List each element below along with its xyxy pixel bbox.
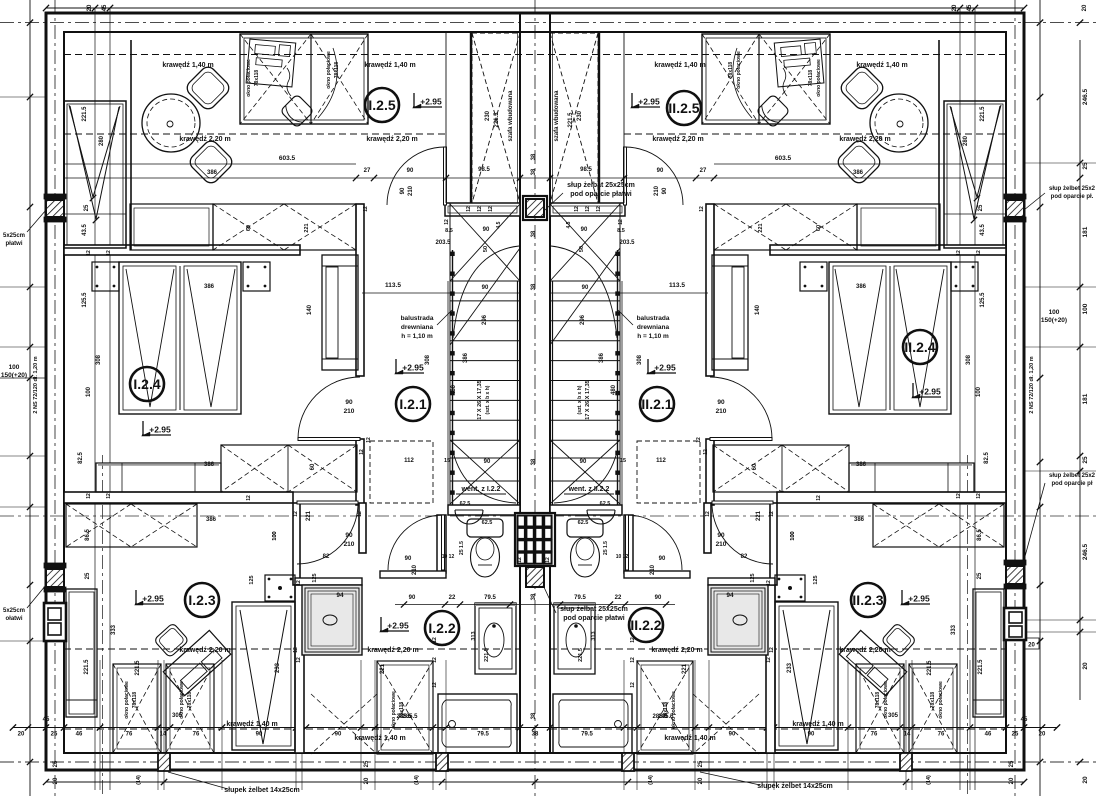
svg-text:125.5: 125.5 — [82, 292, 88, 308]
svg-text:125: 125 — [249, 575, 255, 584]
svg-text:12: 12 — [956, 493, 962, 499]
chair I.2.3 — [154, 623, 189, 658]
room label II.2.2 — [629, 608, 663, 642]
svg-text:okno połaciowe: okno połaciowe — [246, 59, 252, 97]
left margin vertical chain — [29, 0, 31, 796]
wardrobe szafa wbudowana I dashed X — [472, 33, 520, 203]
svg-text:I.2.4: I.2.4 — [133, 376, 160, 392]
bathroom I.2.2 left wall — [295, 585, 304, 753]
wardrobe front edge line II — [623, 33, 625, 203]
svg-text:210: 210 — [716, 541, 727, 548]
svg-text:79.5: 79.5 — [581, 732, 593, 738]
svg-text:20: 20 — [18, 732, 25, 738]
room I.2.5 desk block outline — [240, 34, 368, 124]
room label I.2.2 — [425, 611, 459, 645]
svg-text:okno połaciowe: okno połaciowe — [938, 681, 944, 719]
svg-text:76: 76 — [126, 732, 133, 738]
bottom witness lines — [99, 660, 101, 790]
svg-text:221.5: 221.5 — [568, 112, 574, 128]
svg-text:12: 12 — [477, 206, 483, 212]
toilet II.2.2 bowl — [571, 537, 600, 577]
svg-text:12: 12 — [956, 250, 962, 256]
pier słup żelbet 25x25 right wall upper — [1006, 200, 1024, 217]
svg-text:125: 125 — [813, 575, 819, 584]
slupek 14x25 post at x=622.0 — [622, 753, 634, 771]
svg-text:79.5: 79.5 — [574, 595, 586, 601]
svg-text:25: 25 — [1009, 760, 1015, 767]
svg-text:313: 313 — [471, 631, 477, 640]
door I.2.5 to hall leaf — [444, 147, 447, 205]
sofa I.2.4 — [322, 255, 358, 370]
svg-text:słup żelbat 25x25cm: słup żelbat 25x25cm — [567, 182, 635, 189]
svg-text:25: 25 — [84, 204, 90, 211]
wall hall I.2.1 vertical x356 — [356, 204, 364, 376]
leader margin left lower — [27, 585, 46, 608]
svg-text:90: 90 — [482, 285, 489, 291]
svg-text:pod oparcie pł.: pod oparcie pł. — [1051, 194, 1094, 200]
washbasin cabinet I.2.2 — [475, 603, 516, 674]
desk block dashed X right cell II — [702, 34, 759, 124]
svg-text:12: 12 — [696, 437, 702, 443]
nightstand right I.2.4 — [243, 262, 270, 291]
svg-text:20: 20 — [1082, 776, 1089, 784]
svg-text:45: 45 — [102, 4, 108, 11]
svg-text:12: 12 — [766, 657, 772, 663]
svg-text:II.2.1: II.2.1 — [641, 396, 672, 412]
wardrobe szafa wbudowana II dashed X — [550, 33, 598, 203]
toilet nook sink I — [455, 510, 483, 524]
stair railing balusters II — [616, 252, 620, 256]
stair shaft II.2.1 outline — [550, 203, 620, 505]
svg-text:308: 308 — [96, 354, 102, 365]
bottom second chain — [46, 781, 1024, 783]
svg-text:82.5: 82.5 — [78, 452, 84, 464]
krawedz 2,20 dashed line top — [64, 133, 446, 135]
svg-text:79.5: 79.5 — [484, 595, 496, 601]
svg-text:78x118: 78x118 — [808, 70, 814, 87]
bed duvet V right II.2.4 — [835, 269, 883, 407]
wardrobe I szafa wbudowana side wall — [470, 33, 472, 203]
room II.2.5 desk block outline — [702, 34, 830, 124]
leader slup bottom — [543, 585, 556, 613]
pier słup żelbet 25x25 left wall lower — [46, 569, 64, 587]
svg-text:balustrada: balustrada — [637, 315, 670, 322]
shelf unit left wall I.2.3 — [66, 589, 97, 717]
party wall face inner thin — [517, 33, 519, 205]
tall wardrobe triangle II.2.3 — [783, 610, 830, 744]
axis dash-dot bathroom zone — [0, 515, 1100, 517]
svg-text:386: 386 — [854, 517, 865, 523]
room label I.2.4 — [130, 367, 164, 401]
svg-text:210: 210 — [654, 185, 660, 196]
svg-text:386: 386 — [856, 284, 867, 290]
svg-text:82.5: 82.5 — [984, 452, 990, 464]
svg-text:86.5: 86.5 — [85, 529, 91, 541]
door II.2.5 to hall leaf — [624, 147, 627, 205]
toilet I.2.2 tank — [467, 519, 503, 537]
svg-text:210: 210 — [716, 408, 727, 415]
chimney block flue grid — [515, 513, 555, 566]
svg-text:10 12: 10 12 — [442, 554, 455, 560]
svg-text:221.5: 221.5 — [484, 648, 490, 662]
svg-text:62.5: 62.5 — [600, 501, 611, 507]
svg-text:86.5: 86.5 — [977, 529, 983, 541]
svg-text:100: 100 — [86, 386, 92, 397]
svg-text:221.5: 221.5 — [84, 659, 90, 675]
bathroom II.2.2 left wall — [766, 585, 775, 753]
svg-text:25: 25 — [978, 204, 984, 211]
wall I.2.5/I.2.4 horizontal y250 — [64, 245, 300, 255]
svg-text:12: 12 — [296, 657, 302, 663]
door toilet nook I leaf — [442, 515, 445, 570]
stair bottom diagonals II — [550, 440, 620, 504]
bathtub overflow I.2.2 — [449, 721, 456, 728]
svg-text:79.5: 79.5 — [477, 732, 489, 738]
svg-text:krawędź 2,20 m: krawędź 2,20 m — [179, 136, 230, 143]
desk block divider II — [758, 34, 760, 124]
toilet nook I left wall — [437, 515, 446, 573]
knee wall line II.2.5 — [938, 40, 940, 250]
svg-text:45: 45 — [967, 4, 973, 11]
vent shaft dashed rect I — [370, 441, 433, 503]
svg-text:okno połaciowe: okno połaciowe — [671, 691, 677, 729]
stair treads I — [450, 280, 520, 282]
svg-text:słup żelbet 25x2: słup żelbet 25x2 — [1049, 473, 1096, 479]
svg-text:603.5: 603.5 — [775, 155, 792, 162]
left margin witness segments — [0, 96, 46, 98]
armchair lower I.2.5 — [187, 138, 235, 186]
wall hall II.2.1 vertical x356 — [706, 204, 714, 376]
svg-text:I.2.2: I.2.2 — [428, 620, 455, 636]
nightstand left II.2.4 — [951, 262, 978, 291]
room label II.2.4 — [903, 330, 937, 364]
low cabinet bottom II.2.4 — [849, 463, 974, 492]
svg-text:203.5: 203.5 — [619, 240, 635, 246]
svg-text:76: 76 — [871, 732, 878, 738]
svg-text:20: 20 — [364, 777, 370, 784]
level mark +2.95 II.2.1 — [647, 359, 649, 373]
svg-text:12: 12 — [366, 437, 372, 443]
svg-text:szafa wbudowana: szafa wbudowana — [508, 90, 514, 142]
axis dash-dot right wall — [1014, 0, 1016, 796]
svg-text:386: 386 — [207, 170, 218, 176]
krawedz 1,40 dashed line bottom — [64, 728, 520, 730]
svg-text:krawędź 2,20 m: krawędź 2,20 m — [367, 647, 418, 654]
dim chain y178 II — [535, 177, 1006, 179]
svg-text:221.5: 221.5 — [82, 106, 88, 122]
room label II.2.5 — [667, 91, 701, 125]
pier słup żelbet 25x25 right wall lower — [1006, 566, 1024, 584]
svg-text:22: 22 — [449, 595, 456, 601]
svg-text:38: 38 — [532, 732, 539, 738]
svg-text:20: 20 — [698, 777, 704, 784]
svg-text:25: 25 — [364, 760, 370, 767]
bathtub overflow II.2.2 — [615, 721, 622, 728]
svg-text:90: 90 — [405, 556, 412, 562]
slupek 14x25 post at x=158 — [158, 753, 170, 771]
svg-text:szafa wbudowana: szafa wbudowana — [554, 90, 560, 142]
low cabinet bottom I.2.4 — [96, 463, 221, 492]
svg-text:386: 386 — [599, 352, 605, 363]
svg-text:12: 12 — [517, 557, 523, 563]
svg-text:krawędź 1,40 m: krawędź 1,40 m — [792, 721, 843, 728]
axis dash-dot center party wall — [534, 0, 536, 796]
svg-text:II.2.3: II.2.3 — [852, 592, 883, 608]
svg-text:112: 112 — [656, 458, 666, 464]
svg-text:90: 90 — [409, 595, 416, 601]
svg-text:słupek żelbet 14x25cm: słupek żelbet 14x25cm — [757, 783, 833, 790]
svg-text:386: 386 — [204, 462, 215, 468]
stair winder treads I — [450, 457, 520, 459]
stair winder treads II — [550, 457, 620, 459]
svg-text:305: 305 — [172, 713, 183, 719]
svg-text:12: 12 — [630, 657, 636, 663]
svg-text:210: 210 — [408, 185, 414, 196]
stair top diagonals II — [550, 204, 620, 281]
svg-text:90: 90 — [657, 168, 664, 174]
svg-text:480: 480 — [451, 384, 457, 395]
party wall left face — [519, 13, 521, 753]
svg-text:78x118: 78x118 — [132, 692, 138, 709]
leader margin right lower — [1024, 483, 1045, 560]
svg-text:125.5: 125.5 — [980, 292, 986, 308]
stair top arc II — [551, 246, 617, 338]
svg-text:krawędź 1,40 m: krawędź 1,40 m — [664, 735, 715, 742]
svg-text:90: 90 — [717, 399, 725, 406]
bed duvet V left I.2.4 — [126, 269, 174, 407]
door toilet nook II leaf — [626, 515, 629, 570]
level mark +2.95 II.2.3 — [901, 590, 903, 604]
svg-text:46: 46 — [76, 732, 83, 738]
door II.2.3 swing arc — [712, 503, 773, 564]
svg-text:386: 386 — [206, 517, 217, 523]
toilet II.2.2 tank — [567, 519, 603, 537]
stair railing II wall side — [552, 281, 554, 505]
axis dash-dot bottom wall — [0, 761, 1100, 763]
svg-text:38: 38 — [531, 168, 537, 175]
svg-text:90: 90 — [662, 187, 668, 194]
svg-text:12: 12 — [432, 657, 438, 663]
svg-text:386: 386 — [463, 352, 469, 363]
tall wardrobe triangle I.2.3 — [240, 610, 287, 744]
round table I.2.5 — [142, 94, 200, 152]
leader slup top — [545, 193, 563, 210]
svg-text:90: 90 — [484, 459, 491, 465]
cabinet gray top II.2.4 — [851, 463, 972, 466]
room label II.2.3 — [851, 583, 885, 617]
svg-text:8.5: 8.5 — [617, 228, 625, 234]
svg-text:78x118: 78x118 — [930, 692, 936, 709]
svg-text:98.5: 98.5 — [580, 167, 592, 173]
svg-text:43.5: 43.5 — [82, 224, 88, 236]
door I.2.5 to hall swing arc — [387, 147, 445, 205]
svg-text:90: 90 — [345, 399, 353, 406]
svg-text:90: 90 — [483, 227, 490, 233]
svg-text:12: 12 — [296, 580, 302, 586]
cable squiggle I.2.5 — [287, 68, 291, 96]
svg-text:4.5: 4.5 — [496, 221, 502, 228]
wall I.2.3 top y492 — [64, 492, 293, 503]
door I.2.4 leaf — [298, 438, 360, 441]
stair railing I wall side — [517, 281, 519, 505]
svg-text:230: 230 — [577, 110, 583, 121]
wall above shower I — [295, 578, 362, 585]
sofa II.2.4 — [712, 255, 748, 370]
bed duvet V right I.2.4 — [187, 269, 235, 407]
toilet nook I bottom stub — [380, 571, 446, 578]
svg-text:603.5: 603.5 — [279, 155, 296, 162]
svg-text:38: 38 — [531, 458, 537, 465]
svg-text:+2.95: +2.95 — [420, 97, 442, 107]
svg-text:15: 15 — [444, 458, 450, 464]
svg-text:296: 296 — [580, 314, 586, 325]
svg-text:20: 20 — [952, 4, 958, 11]
svg-text:25: 25 — [698, 760, 704, 767]
svg-text:140: 140 — [755, 304, 761, 315]
shower drain I.2.2 — [323, 615, 337, 625]
level mark +2.95 I.2.4 — [142, 421, 144, 435]
svg-text:50: 50 — [579, 246, 585, 252]
svg-text:43.5: 43.5 — [980, 224, 986, 236]
svg-text:210: 210 — [412, 564, 418, 575]
pier caps left upper — [44, 194, 66, 199]
svg-text:60: 60 — [310, 463, 316, 470]
axis dash-dot left wall — [54, 0, 56, 796]
svg-text:krawędź 1,40 m: krawędź 1,40 m — [354, 735, 405, 742]
svg-text:90: 90 — [582, 285, 589, 291]
stair railing II outer — [621, 281, 623, 505]
svg-text:słupek żelbet 14x25cm: słupek żelbet 14x25cm — [224, 787, 300, 794]
svg-text:82: 82 — [323, 554, 330, 560]
side table II.2.3 — [775, 575, 805, 601]
slupek 14x25 post at x=900.0 — [900, 753, 912, 771]
toilet nook II top wall — [550, 505, 622, 515]
svg-text:50: 50 — [483, 246, 489, 252]
stair railing balusters I — [451, 252, 455, 256]
shower drain II.2.2 — [733, 615, 747, 625]
svg-text:62.5: 62.5 — [482, 520, 493, 526]
stair bottom arc II — [554, 452, 617, 503]
svg-text:246.5: 246.5 — [1082, 88, 1089, 105]
svg-text:12: 12 — [630, 637, 636, 643]
slupek 14x25 post at x=436 — [436, 753, 448, 771]
svg-text:went. z I.2.2: went. z I.2.2 — [461, 486, 501, 493]
svg-text:480: 480 — [611, 384, 617, 395]
svg-text:113.5: 113.5 — [385, 282, 401, 289]
svg-text:38: 38 — [531, 593, 537, 600]
svg-text:90: 90 — [400, 187, 406, 194]
svg-text:25: 25 — [1082, 162, 1089, 170]
svg-text:12: 12 — [699, 206, 705, 212]
svg-text:62.5: 62.5 — [460, 501, 471, 507]
svg-text:280: 280 — [99, 135, 105, 146]
svg-text:okno połaciowe: okno połaciowe — [736, 51, 742, 89]
svg-text:90: 90 — [717, 532, 725, 539]
svg-text:221: 221 — [756, 510, 762, 521]
svg-text:4.5: 4.5 — [566, 221, 572, 228]
svg-text:12: 12 — [545, 557, 551, 563]
krawedz 1,40 dashed line top — [64, 54, 1006, 56]
svg-text:płatwi: płatwi — [5, 241, 22, 247]
svg-text:12: 12 — [630, 682, 636, 688]
svg-text:94: 94 — [336, 592, 344, 599]
svg-text:76: 76 — [193, 732, 200, 738]
svg-text:II.2.4: II.2.4 — [904, 339, 935, 355]
svg-text:(szt. x b x h): (szt. x b x h) — [577, 385, 583, 414]
svg-text:221: 221 — [304, 223, 310, 232]
svg-text:h = 1,10 m: h = 1,10 m — [401, 333, 433, 340]
svg-text:12: 12 — [86, 493, 92, 499]
wall top of hall / wardrobe shelf — [550, 203, 625, 216]
desk rotated I.2.3 — [163, 630, 230, 695]
door toilet nook I swing arc — [388, 515, 443, 570]
toilet I.2.2 bowl — [471, 537, 500, 577]
svg-text:82: 82 — [741, 554, 748, 560]
right margin vertical chains — [1039, 0, 1041, 796]
bed duvet V left II.2.4 — [896, 269, 944, 407]
svg-text:krawędź 2,20 m: krawędź 2,20 m — [652, 136, 703, 143]
svg-text:90: 90 — [335, 732, 342, 738]
svg-text:285.5: 285.5 — [652, 714, 668, 720]
svg-text:25 1.5: 25 1.5 — [603, 541, 609, 555]
svg-text:296: 296 — [482, 314, 488, 325]
svg-text:305: 305 — [888, 713, 899, 719]
roof window bathroom II.2.2 dashed X — [693, 694, 759, 754]
svg-text:2 NS 72/120 dł. 1,20 m: 2 NS 72/120 dł. 1,20 m — [1029, 356, 1035, 413]
svg-text:drewniana: drewniana — [401, 324, 434, 331]
interior vertical witness lines left — [94, 8, 96, 790]
wardrobe divider lines II.2.5 — [944, 213, 1006, 215]
svg-text:balustrada: balustrada — [401, 315, 434, 322]
window element 2 NS right wall — [1004, 608, 1026, 640]
top dimension chain line — [46, 7, 1024, 9]
svg-text:210: 210 — [344, 541, 355, 548]
room label I.2.5 — [365, 88, 399, 122]
svg-text:12: 12 — [363, 206, 369, 212]
shower I.2.2 — [302, 585, 362, 655]
svg-text:słup żelbet 25x2: słup żelbet 25x2 — [1049, 186, 1096, 192]
svg-text:pod oparcie pł: pod oparcie pł — [1051, 481, 1092, 487]
svg-text:25: 25 — [53, 760, 59, 767]
leader balustrada II — [618, 310, 633, 325]
desk rotated II.2.3 — [839, 630, 906, 695]
svg-text:20: 20 — [87, 4, 93, 11]
svg-text:20: 20 — [1082, 4, 1088, 11]
dim 603.5 I.2.5 — [65, 163, 356, 165]
svg-text:333: 333 — [111, 624, 117, 635]
svg-text:12: 12 — [618, 219, 624, 225]
svg-text:12: 12 — [86, 250, 92, 256]
svg-text:221.5: 221.5 — [980, 106, 986, 122]
svg-text:221: 221 — [306, 510, 312, 521]
stair top arc I — [453, 246, 519, 338]
roof window II.2.3 left — [909, 664, 957, 753]
svg-text:60: 60 — [752, 463, 758, 470]
washbasin cabinet II.2.2 — [554, 603, 595, 674]
wardrobe left wall II.2.5 — [944, 101, 1006, 248]
svg-text:140: 140 — [307, 304, 313, 315]
tall wardrobe II.2.3 — [775, 602, 838, 750]
level mark +2.95 II.2.4 — [912, 383, 914, 397]
room label II.2.1 — [640, 387, 674, 421]
svg-text:308: 308 — [425, 354, 431, 365]
svg-text:221.5: 221.5 — [494, 112, 500, 128]
svg-text:krawędź 2,20 m: krawędź 2,20 m — [366, 136, 417, 143]
svg-text:112: 112 — [404, 458, 414, 464]
svg-text:25 1.5: 25 1.5 — [459, 541, 465, 555]
svg-text:210: 210 — [650, 564, 656, 575]
room label I.2.1 — [396, 387, 430, 421]
